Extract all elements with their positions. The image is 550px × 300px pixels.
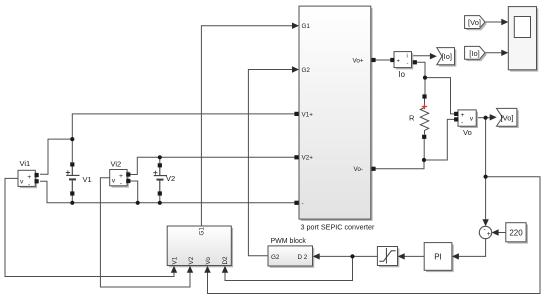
svg-text:V1: V1 — [83, 175, 92, 184]
svg-text:PI: PI — [434, 253, 442, 262]
svg-text:PWM block: PWM block — [271, 238, 307, 245]
svg-text:+: + — [487, 231, 491, 238]
svg-text:220: 220 — [509, 228, 523, 237]
svg-text:V2+: V2+ — [302, 155, 314, 162]
svg-text:D 2: D 2 — [298, 254, 308, 261]
svg-text:G1: G1 — [302, 23, 311, 30]
svg-text:G2: G2 — [271, 254, 280, 261]
svg-text:[Vo]: [Vo] — [468, 18, 481, 27]
svg-text:i: i — [407, 54, 408, 60]
svg-text:+: + — [119, 173, 123, 180]
svg-text:Io: Io — [399, 70, 406, 79]
svg-text:-: - — [302, 200, 304, 207]
svg-text:V2: V2 — [188, 256, 195, 264]
svg-text:V1: V1 — [172, 256, 179, 264]
svg-text:v: v — [112, 178, 116, 185]
svg-text:+: + — [27, 174, 31, 181]
svg-text:G2: G2 — [302, 67, 311, 74]
svg-text:[Vo]: [Vo] — [501, 114, 514, 123]
svg-text:Vi2: Vi2 — [111, 160, 122, 169]
svg-text:-: - — [28, 182, 30, 189]
svg-text:-: - — [461, 120, 463, 127]
svg-text:G1: G1 — [198, 227, 205, 236]
svg-text:Vo-: Vo- — [354, 166, 363, 173]
svg-text:Vo+: Vo+ — [353, 57, 364, 64]
svg-text:D2: D2 — [222, 256, 229, 265]
svg-text:V1+: V1+ — [302, 111, 314, 118]
svg-text:Vo: Vo — [205, 257, 212, 265]
svg-text:-: - — [120, 181, 122, 188]
svg-text:+: + — [461, 112, 465, 119]
svg-text:[Io]: [Io] — [442, 52, 452, 61]
svg-text:Vi1: Vi1 — [20, 159, 31, 168]
svg-text:Vo: Vo — [463, 128, 472, 137]
svg-text:[Io]: [Io] — [469, 49, 479, 58]
svg-text:3 port SEPIC converter: 3 port SEPIC converter — [301, 223, 376, 232]
svg-text:v: v — [20, 179, 24, 186]
svg-text:R: R — [409, 114, 415, 123]
svg-text:V2: V2 — [166, 174, 175, 183]
svg-text:v: v — [470, 115, 474, 122]
svg-text:-: - — [407, 61, 409, 67]
